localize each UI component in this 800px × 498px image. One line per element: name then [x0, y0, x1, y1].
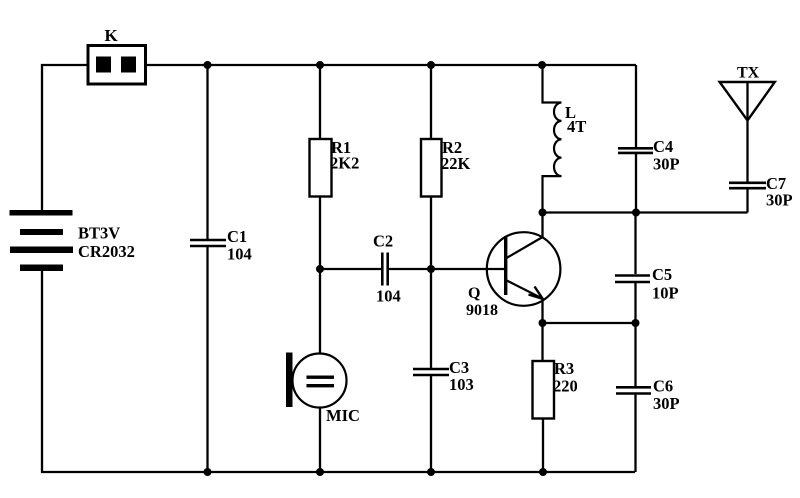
svg-text:C4: C4 — [653, 137, 673, 156]
svg-text:TX: TX — [737, 65, 760, 82]
junction bottom rail R3 — [539, 468, 547, 476]
wire C3 to bottom rail — [430, 376, 432, 472]
svg-text:C5: C5 — [652, 265, 672, 284]
resistor R2 — [421, 138, 471, 197]
wire C6 column lower — [634, 394, 636, 472]
capacitor C4 — [618, 137, 680, 174]
wire base net right of C2 — [389, 268, 506, 270]
svg-text:4T: 4T — [567, 117, 586, 136]
svg-text:220: 220 — [553, 377, 578, 396]
battery BT3V CR2032 — [10, 210, 135, 271]
junction emitter rail C5 — [632, 319, 640, 327]
svg-text:C1: C1 — [227, 227, 247, 246]
wire C5 column lower — [634, 283, 636, 323]
junction tank rail C4 — [632, 209, 640, 217]
svg-text:C2: C2 — [373, 232, 393, 251]
wire R2 column upper — [430, 65, 432, 139]
switch K — [88, 26, 146, 84]
svg-text:Q: Q — [468, 285, 480, 302]
microphone MIC — [286, 353, 360, 426]
wire top rail left segment — [42, 65, 88, 210]
wire emitter vertical — [541, 298, 543, 361]
wire R1 column mid — [319, 196, 321, 354]
wire collector vertical — [541, 213, 543, 238]
junction bottom rail C3 — [427, 468, 435, 476]
junction base net R2 — [427, 265, 435, 273]
capacitor C7 — [729, 174, 793, 210]
resistor R3 — [533, 359, 578, 419]
svg-text:2K2: 2K2 — [330, 154, 359, 173]
wire C1 column lower — [206, 247, 208, 472]
capacitor C1 — [190, 227, 252, 264]
capacitor C5 — [615, 265, 679, 303]
svg-text:BT3V: BT3V — [78, 224, 120, 243]
wire MIC to bottom rail — [319, 407, 321, 472]
transistor Q1 9018 — [466, 232, 560, 319]
junction tank rail L — [539, 209, 547, 217]
svg-text:C6: C6 — [653, 377, 673, 396]
svg-text:104: 104 — [376, 287, 401, 306]
wire antenna feed — [746, 82, 748, 182]
svg-text:R3: R3 — [554, 359, 574, 378]
wire base net left of C2 — [320, 268, 381, 270]
svg-text:22K: 22K — [441, 154, 471, 173]
capacitor C3 — [413, 358, 474, 394]
junction top rail R2 — [427, 61, 435, 69]
junction top rail L — [538, 61, 546, 69]
svg-text:10P: 10P — [652, 284, 679, 303]
wire C7 to tank rail — [746, 190, 748, 213]
junction emitter rail left — [539, 319, 547, 327]
antenna TX — [720, 65, 775, 121]
capacitor C2 — [373, 232, 401, 306]
svg-text:K: K — [105, 26, 119, 45]
wire C5 column upper — [634, 213, 636, 275]
junction base net R1 — [316, 265, 324, 273]
resistor R1 — [310, 138, 360, 197]
inductor L 4T — [543, 65, 587, 213]
wire R1 column upper — [319, 65, 321, 139]
wire bottom rail — [41, 471, 635, 473]
wire C1 column upper — [206, 65, 208, 239]
svg-text:103: 103 — [449, 375, 474, 394]
svg-text:30P: 30P — [653, 394, 680, 413]
junction top rail R1 — [316, 61, 324, 69]
wire emitter rail y323 — [543, 322, 636, 324]
wire R2 column mid — [430, 196, 432, 368]
wire R3 to bottom rail — [542, 418, 544, 472]
svg-text:9018: 9018 — [466, 302, 498, 319]
svg-text:MIC: MIC — [326, 406, 360, 425]
junction bottom rail MIC — [316, 468, 324, 476]
svg-text:30P: 30P — [653, 155, 680, 174]
wire top rail main — [145, 64, 636, 66]
wire C4 column lower — [635, 154, 637, 213]
junction bottom rail C1 — [204, 468, 212, 476]
capacitor C6 — [616, 377, 680, 414]
wire C4 column upper — [635, 65, 637, 147]
svg-text:30P: 30P — [766, 191, 793, 210]
wire tank rail y213 — [542, 211, 748, 213]
wire C6 column upper — [634, 323, 636, 386]
svg-text:104: 104 — [227, 245, 252, 264]
svg-text:CR2032: CR2032 — [78, 242, 135, 261]
junction top rail C1 — [204, 61, 212, 69]
wire left rail lower — [41, 271, 43, 473]
